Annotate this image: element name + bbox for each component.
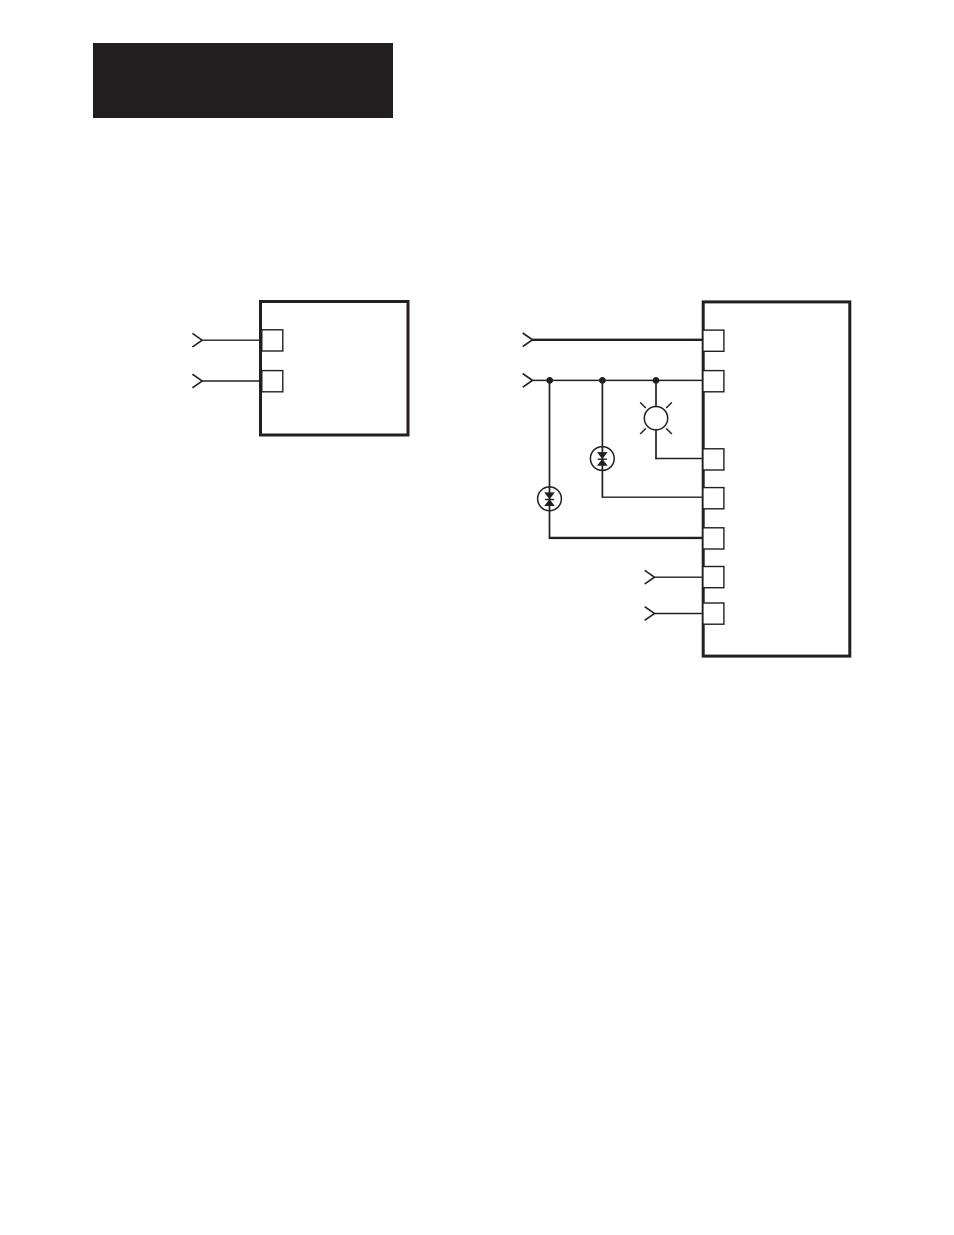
terminal B7 (703, 603, 724, 624)
module B (output module box) (703, 302, 850, 656)
wire: vertical drop from dot 3 to indicator lamp (655, 380, 657, 459)
wire to terminal B7 (654, 613, 703, 615)
wire: run to terminal B3 (656, 458, 703, 460)
connector chevron B2 (523, 374, 533, 388)
connector chevron B1 (523, 333, 533, 347)
junction dot 3 (653, 377, 660, 384)
connector chevron A2 (192, 374, 202, 388)
connector chevron B6 (645, 570, 655, 584)
junction dot 1 (546, 377, 553, 384)
terminal A2 (262, 371, 283, 392)
wire to terminal A1 (202, 339, 260, 341)
terminal B5 (703, 528, 724, 549)
terminal A1 (262, 330, 283, 351)
surge suppressor D1 (538, 487, 562, 511)
wire: vertical drop from dot 1 through suppressor D1 (549, 380, 551, 538)
terminal B4 (703, 488, 724, 509)
module A (input module box) (261, 302, 409, 436)
terminal B3 (703, 449, 724, 470)
terminal B1 (703, 330, 724, 351)
terminal B2 (703, 371, 724, 392)
connector chevron A1 (192, 333, 202, 347)
terminal B6 (703, 567, 724, 588)
indicator lamp L1 (640, 402, 672, 434)
header block (93, 43, 393, 118)
connector chevron B7 (645, 607, 655, 621)
wire to terminal A2 (202, 380, 260, 382)
wire to terminal B1 (532, 339, 703, 341)
junction dot 2 (599, 377, 606, 384)
wire: bottom run to terminal B5 (549, 537, 703, 539)
wire to terminal B2 (bus) (532, 379, 703, 381)
wire: run to terminal B4 (602, 496, 703, 498)
wire: vertical drop from dot 2 through suppressor D2 (601, 380, 603, 498)
wire to terminal B6 (654, 576, 703, 578)
surge suppressor D2 (590, 447, 614, 471)
